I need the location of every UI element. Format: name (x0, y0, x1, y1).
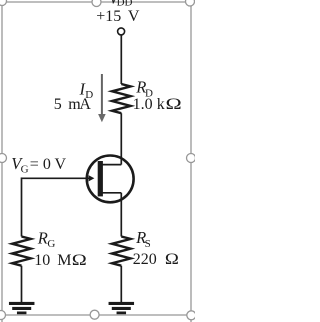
ground left (9, 302, 35, 314)
wire RD to drain (120, 113, 122, 164)
wire gate (22, 177, 91, 179)
svg-text:= 0 V: = 0 V (30, 156, 67, 173)
wire RS to ground (120, 266, 122, 303)
svg-text:R: R (37, 228, 48, 247)
ground right (109, 302, 135, 314)
label ID (79, 79, 94, 101)
label VDD (109, 0, 133, 9)
decorative frame (unlabeled) (0, 0, 196, 322)
label RG (37, 228, 56, 250)
wire source to RS (120, 193, 122, 237)
svg-text:220Ω: 220Ω (133, 251, 179, 268)
transistor Q1 n-channel JFET (87, 156, 134, 203)
wire VG node to RG (21, 177, 23, 236)
svg-text:5mA: 5mA (54, 96, 92, 113)
resistor RG (12, 237, 31, 266)
label VG = 0 V (11, 154, 66, 176)
svg-text:G: G (47, 238, 55, 250)
svg-text:1.0kΩ: 1.0kΩ (133, 96, 182, 113)
resistor RD (112, 84, 131, 113)
svg-text:+15V: +15V (96, 8, 140, 25)
svg-text:G: G (21, 164, 29, 176)
resistor RS (112, 237, 131, 266)
svg-text:10MΩ: 10MΩ (34, 252, 87, 269)
svg-text:S: S (145, 238, 151, 250)
wire RG to ground (21, 266, 23, 303)
node VDD terminal (118, 28, 125, 35)
current arrow ID (98, 74, 106, 122)
label RS (135, 228, 151, 250)
wire VDD terminal to RD (120, 35, 122, 84)
label RD (135, 78, 153, 100)
